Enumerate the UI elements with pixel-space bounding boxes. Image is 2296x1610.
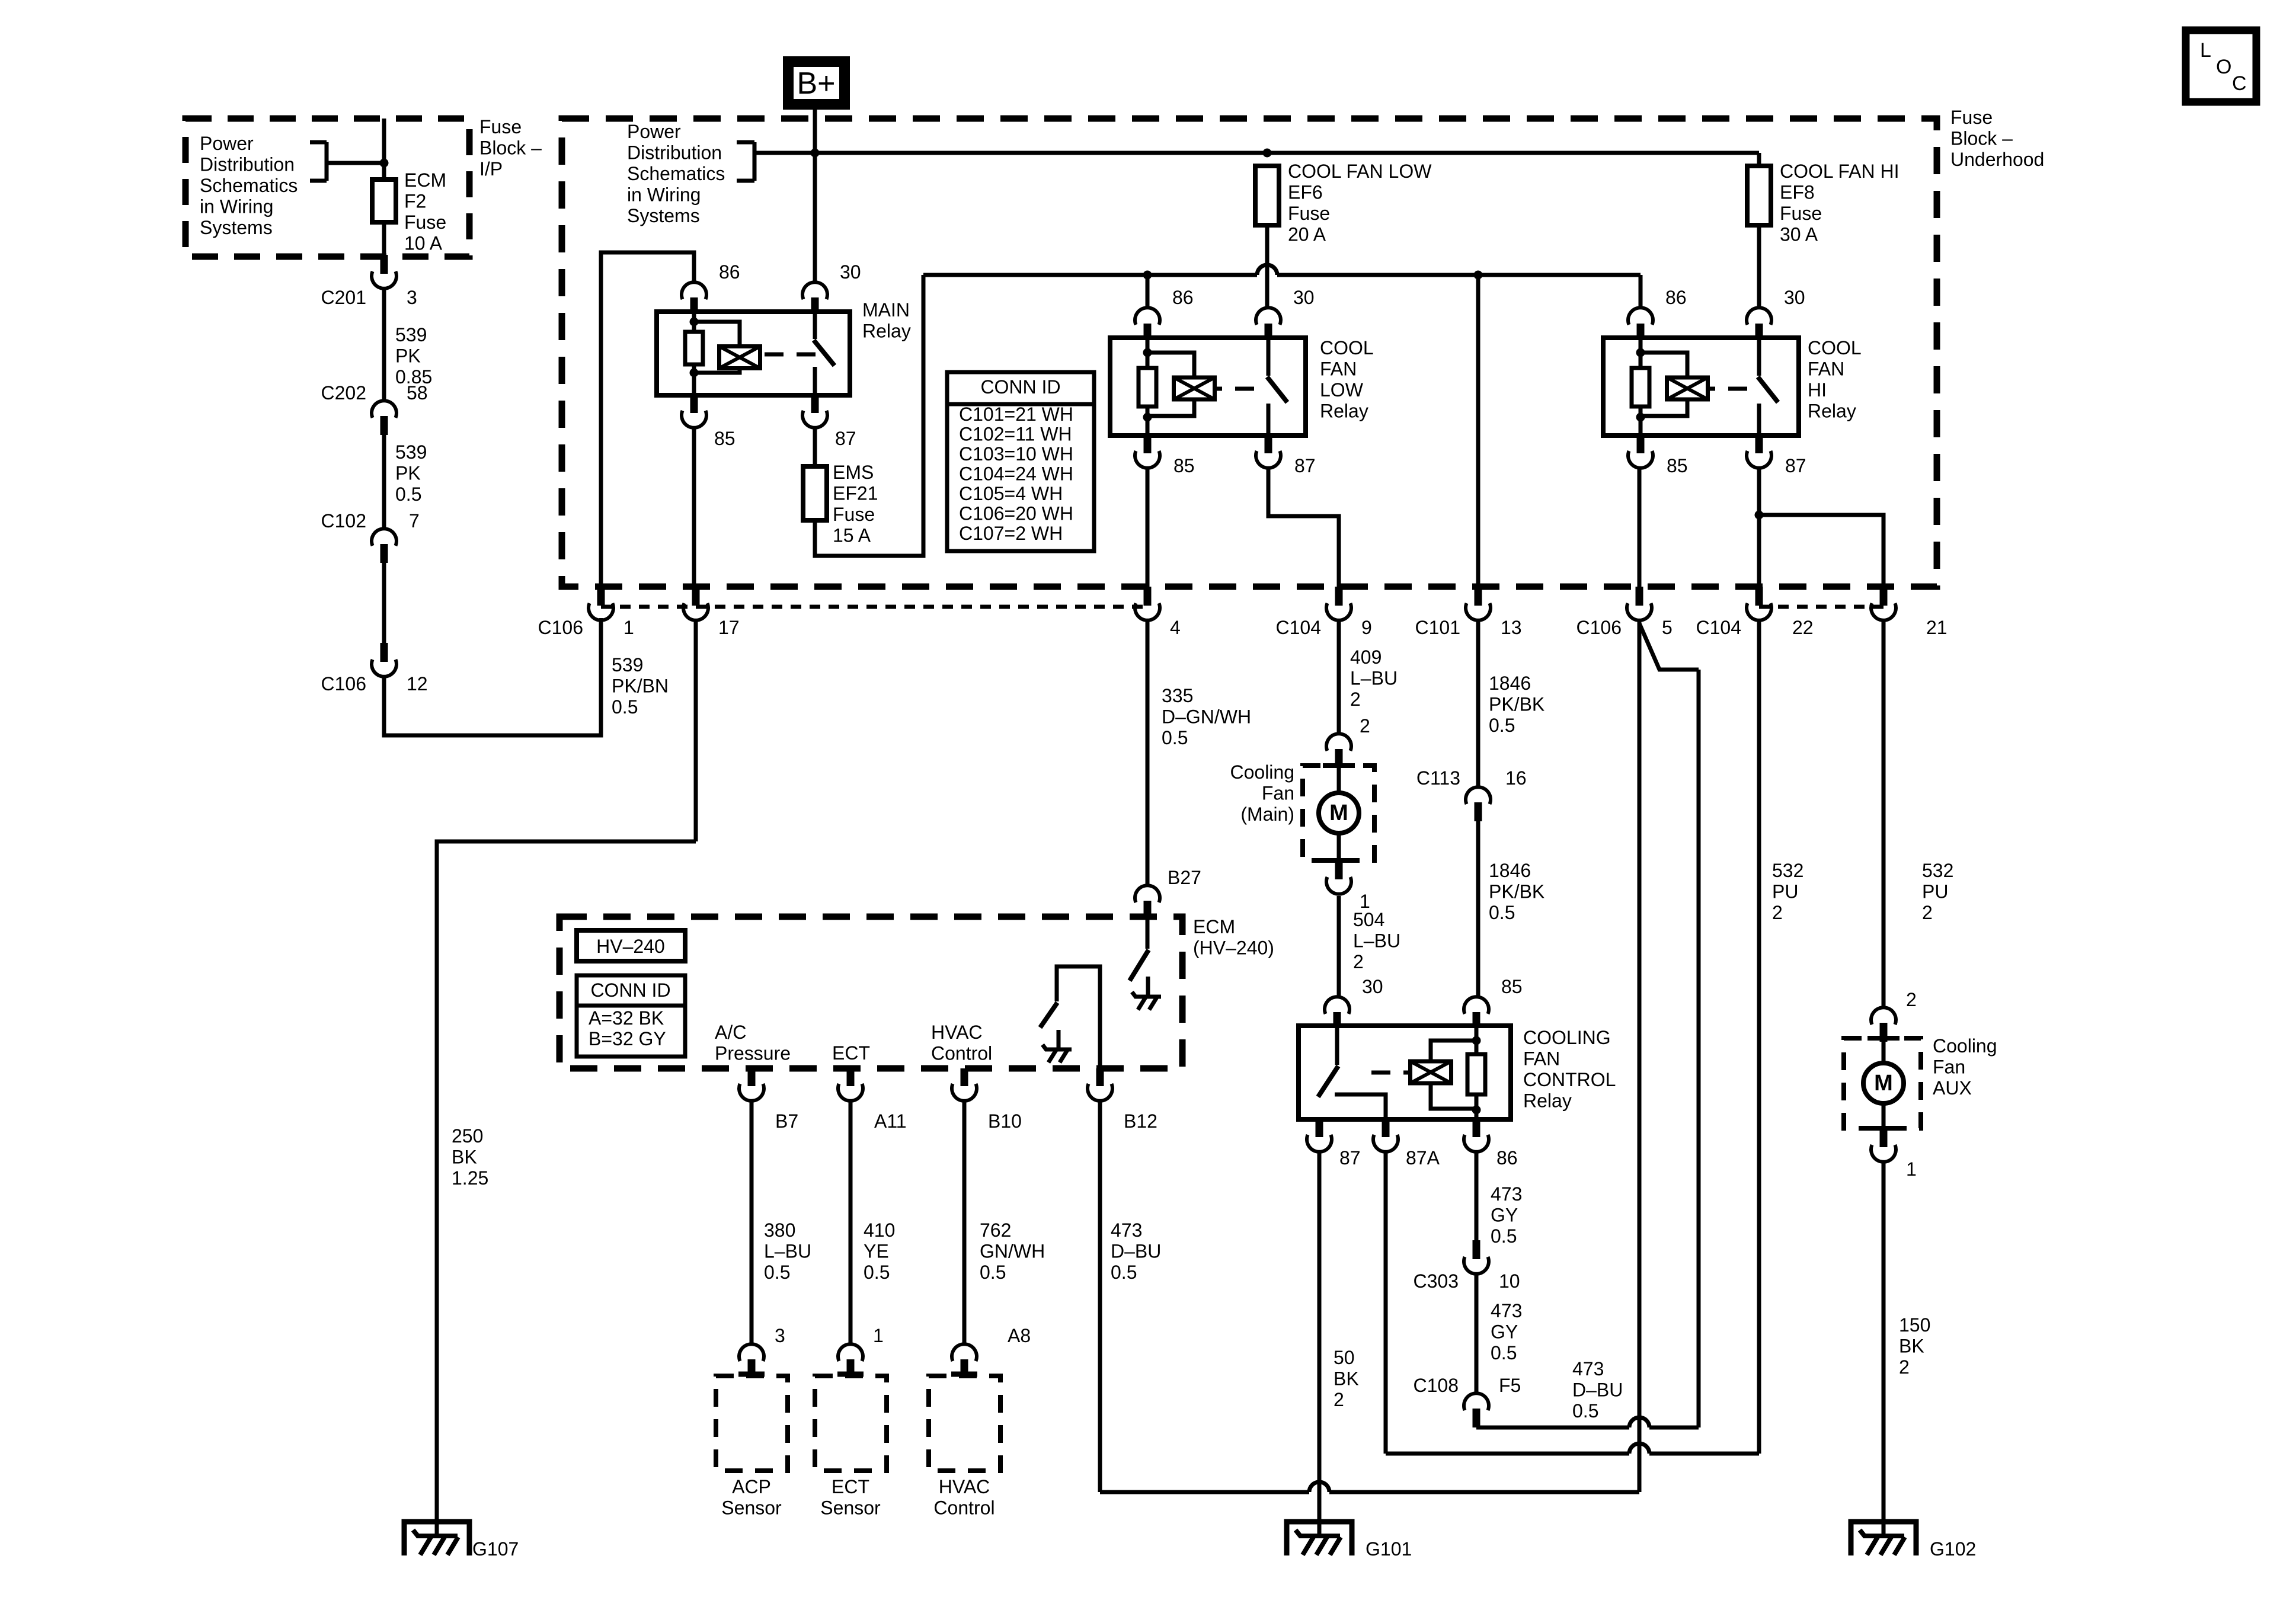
- svg-text:ACP: ACP: [732, 1476, 771, 1497]
- motor Cooling Fan AUX: [1844, 1035, 1997, 1128]
- sensor connector pin 1: [838, 1325, 884, 1378]
- svg-text:GY: GY: [1491, 1321, 1518, 1343]
- svg-text:Fuse: Fuse: [404, 212, 446, 233]
- svg-text:Fan: Fan: [1933, 1057, 1965, 1078]
- node: C101-13 junction: [1474, 271, 1483, 280]
- svg-text:380: 380: [764, 1219, 795, 1241]
- svg-text:in Wiring: in Wiring: [627, 184, 701, 206]
- svg-text:BK: BK: [1899, 1336, 1924, 1357]
- svg-text:FAN: FAN: [1320, 359, 1357, 380]
- svg-text:250: 250: [452, 1125, 483, 1147]
- svg-text:C: C: [2232, 72, 2247, 95]
- fuse EF8 (COOL FAN HI 30 A): [1747, 161, 1900, 245]
- svg-text:0.5: 0.5: [1491, 1225, 1517, 1247]
- svg-text:(Main): (Main): [1240, 804, 1294, 825]
- connector row dotted line C106: [601, 605, 1147, 609]
- connector: aux fan pin 1: [1871, 1128, 1917, 1180]
- svg-text:16: 16: [1505, 767, 1527, 789]
- svg-text:532: 532: [1922, 860, 1953, 881]
- svg-text:Systems: Systems: [200, 217, 273, 238]
- svg-text:FAN: FAN: [1523, 1048, 1560, 1070]
- ECM internal switch at B27: [1130, 920, 1161, 1010]
- svg-text:F5: F5: [1499, 1375, 1521, 1396]
- HV-240 label box: [577, 930, 685, 961]
- svg-text:CONN ID: CONN ID: [590, 980, 670, 1001]
- wire: C106-5 branch to 473 D-BU riser: [1639, 623, 1699, 1427]
- wire: C106-5 straight down to B12 run: [1638, 620, 1642, 1492]
- svg-text:PK/BK: PK/BK: [1489, 694, 1544, 715]
- svg-text:86: 86: [719, 261, 740, 283]
- svg-text:86: 86: [1496, 1147, 1518, 1169]
- svg-text:C101: C101: [1415, 617, 1461, 638]
- svg-text:Fuse: Fuse: [1288, 203, 1330, 224]
- svg-text:3: 3: [407, 287, 417, 308]
- wire: fuse block top to F2 fuse: [382, 119, 386, 180]
- svg-text:30: 30: [1293, 287, 1315, 308]
- wire 1846 PK/BK 0.5 upper: [1478, 620, 1544, 787]
- wire: HI 87 down to junction: [1755, 468, 1764, 520]
- svg-text:0.5: 0.5: [764, 1262, 790, 1283]
- ECT Sensor box: [815, 1374, 887, 1519]
- svg-text:C105=4 WH: C105=4 WH: [959, 483, 1063, 504]
- Power Distribution Schematics note (I/P): [200, 133, 384, 238]
- svg-text:COOL FAN LOW: COOL FAN LOW: [1288, 161, 1432, 182]
- svg-text:L–BU: L–BU: [1350, 668, 1398, 689]
- svg-text:409: 409: [1350, 646, 1382, 668]
- svg-text:C102: C102: [321, 510, 367, 532]
- wire: B12 run to C106-5 riser: [1100, 1482, 1639, 1492]
- svg-text:150: 150: [1899, 1314, 1930, 1336]
- wire 410 YE 0.5: [850, 1101, 895, 1344]
- relay MAIN - coil and resistor: [685, 312, 816, 395]
- svg-text:M: M: [1874, 1071, 1893, 1096]
- feed line to relay coils: [923, 265, 1641, 275]
- svg-text:PK: PK: [395, 345, 421, 367]
- wire: C106-12 down and right to C106-1 branch: [384, 618, 601, 735]
- svg-text:EMS: EMS: [833, 462, 874, 483]
- wire 532 PU 2 (C104-22 to 87A line): [1759, 620, 1803, 1454]
- svg-text:87: 87: [835, 428, 856, 449]
- svg-text:Systems: Systems: [627, 205, 700, 226]
- svg-text:D–BU: D–BU: [1572, 1379, 1623, 1401]
- wire: junction to C104-22: [1757, 515, 1761, 587]
- connector: relay pin 87: [1747, 436, 1806, 476]
- svg-text:1: 1: [623, 617, 634, 638]
- svg-text:GY: GY: [1491, 1205, 1518, 1226]
- svg-text:PK: PK: [395, 463, 421, 484]
- svg-text:30: 30: [1784, 287, 1805, 308]
- connector C106 pin 5: [1576, 587, 1673, 638]
- svg-text:C102=11 WH: C102=11 WH: [959, 424, 1072, 445]
- svg-text:0.5: 0.5: [980, 1262, 1006, 1283]
- svg-text:2: 2: [1772, 902, 1783, 923]
- svg-text:EF8: EF8: [1780, 182, 1815, 203]
- svg-text:HI: HI: [1808, 379, 1827, 401]
- svg-text:HVAC: HVAC: [939, 1476, 990, 1497]
- svg-text:0.5: 0.5: [612, 696, 638, 718]
- motor Cooling Fan (Main): [1230, 761, 1374, 860]
- wire 539 PK 0.5: [384, 435, 427, 529]
- svg-text:10: 10: [1499, 1270, 1520, 1292]
- wire 473 GY 0.5 upper: [1476, 1152, 1522, 1247]
- wire 380 L-BU 0.5: [752, 1101, 811, 1344]
- svg-text:PU: PU: [1922, 881, 1948, 902]
- svg-text:(HV–240): (HV–240): [1193, 937, 1274, 959]
- relay coil and resistor: [1139, 338, 1254, 436]
- svg-text:L–BU: L–BU: [764, 1241, 811, 1262]
- connector C113 pin 16: [1416, 767, 1527, 821]
- svg-text:C106: C106: [1576, 617, 1622, 638]
- svg-text:COOL: COOL: [1808, 337, 1862, 359]
- svg-text:B7: B7: [775, 1110, 798, 1132]
- wire: junction to connector 21: [1759, 515, 1884, 587]
- svg-text:473: 473: [1491, 1300, 1522, 1321]
- wire 335 D-GN/WH 0.5 to ECM B27: [1147, 620, 1251, 885]
- connector C106 pin 1: [538, 587, 634, 638]
- svg-text:Block –: Block –: [1950, 128, 2013, 149]
- svg-text:1: 1: [1906, 1158, 1917, 1180]
- svg-text:1: 1: [873, 1325, 884, 1346]
- svg-text:15 A: 15 A: [833, 525, 871, 546]
- svg-text:10 A: 10 A: [404, 233, 443, 254]
- wire: MAIN 85 to connector 17: [692, 428, 696, 587]
- svg-text:Fuse: Fuse: [1950, 107, 1993, 128]
- connector: aux fan pin 2: [1871, 989, 1917, 1042]
- svg-text:9: 9: [1361, 617, 1372, 638]
- svg-text:2: 2: [1360, 715, 1370, 737]
- svg-text:PK/BN: PK/BN: [612, 676, 669, 697]
- wire: LOW 85 to connector 4: [1146, 468, 1150, 587]
- svg-text:L–BU: L–BU: [1353, 930, 1400, 952]
- svg-text:539: 539: [395, 324, 427, 345]
- connector C101 pin 13: [1415, 587, 1522, 638]
- svg-text:87: 87: [1785, 455, 1806, 476]
- svg-text:Power: Power: [200, 133, 254, 154]
- svg-text:50: 50: [1334, 1347, 1355, 1368]
- connector: control relay pin 30: [1325, 976, 1383, 1026]
- svg-text:C104: C104: [1696, 617, 1742, 638]
- svg-text:473: 473: [1111, 1219, 1142, 1241]
- connector pin 21: [1871, 587, 1948, 638]
- connector ECM pin A11: [838, 1068, 907, 1132]
- connector ECM pin B7: [739, 1068, 798, 1132]
- svg-text:Fuse: Fuse: [1780, 203, 1822, 224]
- svg-text:0.5: 0.5: [864, 1262, 890, 1283]
- svg-text:Schematics: Schematics: [200, 175, 298, 196]
- svg-text:335: 335: [1162, 685, 1193, 706]
- Fuse Block - Underhood dashed box: [562, 107, 2044, 587]
- svg-text:85: 85: [1173, 455, 1195, 476]
- svg-text:CONN ID: CONN ID: [980, 376, 1060, 398]
- svg-text:MAIN: MAIN: [862, 299, 910, 321]
- svg-text:1846: 1846: [1489, 860, 1531, 881]
- connector: relay pin 30: [1256, 287, 1315, 338]
- svg-text:CONTROL: CONTROL: [1523, 1069, 1616, 1090]
- svg-text:473: 473: [1491, 1183, 1522, 1205]
- svg-text:20 A: 20 A: [1288, 224, 1326, 245]
- wire 1846 PK/BK 0.5 lower: [1478, 821, 1544, 997]
- connector: relay pin 86: [1628, 287, 1687, 338]
- wire 762 GN/WH 0.5: [964, 1101, 1045, 1344]
- connector C201 pin 3: [321, 255, 417, 308]
- wire: bus corner to EF8: [1757, 153, 1761, 166]
- wire: EF6 to COOL FAN LOW 30: [1265, 225, 1269, 309]
- svg-text:Fuse: Fuse: [833, 504, 875, 525]
- svg-text:C107=2 WH: C107=2 WH: [959, 523, 1063, 544]
- svg-text:Relay: Relay: [1808, 401, 1856, 422]
- svg-text:I/P: I/P: [479, 158, 503, 180]
- svg-text:58: 58: [407, 382, 428, 404]
- wire 539 PK 0.85: [384, 289, 432, 401]
- svg-text:Power: Power: [627, 121, 681, 142]
- wire: EF21 to feed line riser: [815, 275, 923, 556]
- CONN ID table: [947, 372, 1094, 551]
- B+ power feed box: [788, 62, 845, 104]
- svg-text:0.5: 0.5: [1489, 902, 1515, 923]
- relay switch: [1267, 338, 1287, 436]
- svg-text:Cooling: Cooling: [1933, 1035, 1997, 1057]
- svg-text:F2: F2: [404, 191, 426, 212]
- svg-text:Sensor: Sensor: [721, 1497, 782, 1519]
- svg-text:EF21: EF21: [833, 483, 878, 504]
- svg-text:C106: C106: [538, 617, 584, 638]
- svg-text:L: L: [2200, 39, 2211, 62]
- wire 539 PK/BN 0.5 label: [612, 654, 669, 718]
- node: F2 feed junction: [380, 159, 389, 168]
- svg-text:C106: C106: [321, 673, 367, 694]
- svg-text:C106=20 WH: C106=20 WH: [959, 503, 1073, 524]
- svg-text:30: 30: [1362, 976, 1383, 997]
- connector: relay pin 85: [1135, 436, 1195, 476]
- svg-text:FAN: FAN: [1808, 359, 1844, 380]
- svg-text:COOL: COOL: [1320, 337, 1374, 359]
- svg-text:Underhood: Underhood: [1950, 149, 2044, 170]
- svg-text:Control: Control: [931, 1043, 992, 1064]
- svg-text:1846: 1846: [1489, 673, 1531, 694]
- Fuse Block - I/P dashed box: [186, 116, 542, 257]
- svg-text:COOLING: COOLING: [1523, 1027, 1611, 1048]
- svg-text:Distribution: Distribution: [627, 142, 722, 164]
- wire: feed line to COOL FAN LOW 86: [1146, 275, 1150, 309]
- connector ECM pin B27: [1135, 867, 1201, 920]
- svg-text:Block –: Block –: [479, 137, 542, 159]
- node: B+ junction: [811, 149, 820, 158]
- svg-text:17: 17: [718, 617, 740, 638]
- svg-text:Cooling: Cooling: [1230, 761, 1294, 783]
- control relay coil and resistor: [1371, 1026, 1485, 1119]
- svg-text:Relay: Relay: [1320, 401, 1368, 422]
- wire: 87A to C104-22 line: [1386, 1152, 1759, 1454]
- Power Distribution Schematics note (Underhood): [627, 121, 754, 226]
- connector ECM pin B12: [1088, 1068, 1157, 1132]
- svg-text:YE: YE: [864, 1241, 889, 1262]
- connector C303 pin 10: [1414, 1240, 1520, 1292]
- connector: relay pin 86: [1135, 287, 1194, 338]
- svg-text:HV–240: HV–240: [596, 936, 665, 957]
- svg-text:C113: C113: [1416, 767, 1460, 789]
- svg-text:A=32 BK: A=32 BK: [589, 1007, 664, 1029]
- fuse EMS EF21 15 A: [803, 462, 878, 546]
- svg-text:5: 5: [1662, 617, 1673, 638]
- svg-text:C103=10 WH: C103=10 WH: [959, 443, 1073, 465]
- wire: EF8 to COOL FAN HI 30: [1757, 225, 1761, 309]
- svg-text:2: 2: [1922, 902, 1933, 923]
- svg-text:C201: C201: [321, 287, 367, 308]
- svg-text:COOL FAN HI: COOL FAN HI: [1780, 161, 1900, 182]
- LOC reference box: [2186, 30, 2256, 102]
- svg-text:410: 410: [864, 1219, 895, 1241]
- connector row dotted line C104: [1759, 605, 1884, 609]
- wire 409 L-BU 2: [1339, 620, 1398, 734]
- svg-text:30 A: 30 A: [1780, 224, 1818, 245]
- svg-text:21: 21: [1926, 617, 1948, 638]
- svg-text:C303: C303: [1414, 1270, 1459, 1292]
- wire 473 D-BU 0.5 from C108-F5 to riser: [1476, 1358, 1699, 1427]
- svg-text:C104: C104: [1276, 617, 1322, 638]
- connector pin 17: [683, 587, 740, 638]
- connector: control relay pin 87A: [1373, 1119, 1440, 1169]
- svg-text:BK: BK: [452, 1147, 477, 1168]
- svg-text:in Wiring: in Wiring: [200, 196, 273, 217]
- wire: MAIN 85 through 17: [694, 620, 698, 841]
- connector: control relay pin 85: [1464, 976, 1523, 1026]
- svg-text:C101=21 WH: C101=21 WH: [959, 404, 1073, 425]
- svg-text:A11: A11: [874, 1110, 907, 1132]
- svg-text:2: 2: [1350, 689, 1361, 710]
- connector: relay pin 30: [1747, 287, 1805, 338]
- svg-text:539: 539: [612, 654, 643, 676]
- svg-text:30: 30: [840, 261, 861, 283]
- wire 473 D-BU 0.5 from B12: [1100, 1101, 1161, 1492]
- svg-text:ECT: ECT: [832, 1042, 870, 1064]
- svg-text:Control: Control: [933, 1497, 994, 1519]
- svg-text:Fan: Fan: [1262, 783, 1294, 804]
- svg-text:Distribution: Distribution: [200, 154, 295, 175]
- control relay switch: [1318, 1026, 1386, 1119]
- relay COOL FAN HI Relay - box: [1603, 337, 1862, 436]
- connector: cooling fan main pin 2: [1326, 715, 1370, 768]
- svg-text:ECM: ECM: [1193, 916, 1235, 937]
- svg-text:LOW: LOW: [1320, 379, 1364, 401]
- connector: MAIN relay pin 87: [802, 395, 856, 449]
- wire: 17 to G107 run: [437, 841, 696, 1536]
- wire 50 BK 2 to G101: [1319, 1152, 1359, 1536]
- svg-text:ECM: ECM: [404, 169, 446, 191]
- connector pin 4: [1135, 587, 1181, 638]
- svg-text:0.5: 0.5: [1572, 1400, 1598, 1422]
- wire: feed line to COOL FAN HI 86: [1639, 275, 1643, 309]
- connector: MAIN relay pin 85: [682, 395, 736, 449]
- svg-text:87: 87: [1294, 455, 1316, 476]
- svg-text:2: 2: [1353, 951, 1364, 972]
- svg-text:Fuse: Fuse: [479, 116, 522, 137]
- relay coil and resistor: [1632, 338, 1747, 436]
- svg-text:1.25: 1.25: [452, 1167, 488, 1189]
- svg-text:BK: BK: [1334, 1368, 1359, 1390]
- connector: cooling fan main pin 1: [1326, 860, 1370, 912]
- svg-text:85: 85: [1501, 976, 1523, 997]
- wire 532 PU 2 (21 to aux fan): [1884, 620, 1953, 1007]
- svg-text:ECT: ECT: [832, 1476, 869, 1497]
- svg-text:532: 532: [1772, 860, 1803, 881]
- connector: control relay pin 86: [1464, 1119, 1518, 1169]
- wire: C101-13 junction down: [1476, 275, 1480, 587]
- ACP Sensor box: [716, 1374, 788, 1519]
- svg-text:504: 504: [1353, 909, 1384, 930]
- wire: C102 to C106-12: [382, 563, 386, 643]
- ECM internal switch at B12: [1040, 966, 1100, 1068]
- svg-text:PK/BK: PK/BK: [1489, 881, 1544, 902]
- svg-text:539: 539: [395, 441, 427, 463]
- svg-text:Pressure: Pressure: [715, 1043, 791, 1064]
- sensor connector pin A8: [952, 1325, 1031, 1378]
- svg-text:A8: A8: [1008, 1325, 1031, 1346]
- svg-text:762: 762: [980, 1219, 1011, 1241]
- svg-text:AUX: AUX: [1933, 1077, 1972, 1099]
- connector: control relay pin 87: [1307, 1119, 1361, 1169]
- ECM pin function labels: [715, 1022, 992, 1064]
- ground G107: [404, 1522, 519, 1560]
- svg-text:M: M: [1329, 801, 1348, 825]
- svg-text:PU: PU: [1772, 881, 1798, 902]
- connector: relay pin 87: [1256, 436, 1316, 476]
- connector: MAIN relay pin 86: [682, 261, 740, 312]
- svg-text:86: 86: [1172, 287, 1194, 308]
- svg-text:86: 86: [1665, 287, 1687, 308]
- connector ECM pin B10: [952, 1068, 1022, 1132]
- wire 150 BK 2 to G102: [1884, 1162, 1930, 1536]
- wire: LOW 87 to C104-9: [1268, 468, 1339, 587]
- node: EF6 junction: [1263, 149, 1272, 158]
- svg-text:12: 12: [407, 673, 428, 694]
- sensor connector pin 3: [739, 1325, 785, 1378]
- svg-text:3: 3: [775, 1325, 785, 1346]
- svg-text:C104=24 WH: C104=24 WH: [959, 463, 1073, 485]
- svg-text:0.5: 0.5: [1489, 715, 1515, 736]
- connector C102 pin 7: [321, 510, 420, 563]
- svg-text:2: 2: [1334, 1389, 1344, 1410]
- ground G101: [1287, 1522, 1412, 1560]
- connector: MAIN relay pin 30: [802, 261, 861, 312]
- relay MAIN - box: [657, 299, 911, 395]
- svg-text:B10: B10: [988, 1110, 1022, 1132]
- svg-text:C202: C202: [321, 382, 367, 404]
- ground G102: [1851, 1522, 1976, 1560]
- connector C202 pin 58: [321, 382, 428, 435]
- svg-text:C108: C108: [1414, 1375, 1459, 1396]
- svg-text:473: 473: [1572, 1358, 1604, 1379]
- ECM CONN ID table: [577, 975, 685, 1057]
- svg-text:O: O: [2216, 56, 2231, 78]
- wire: F2 fuse to C201: [382, 222, 386, 255]
- relay COOL FAN LOW Relay - box: [1110, 337, 1374, 436]
- svg-text:Relay: Relay: [862, 321, 911, 342]
- svg-text:7: 7: [409, 510, 420, 532]
- svg-text:0.5: 0.5: [1111, 1262, 1137, 1283]
- node: COOL FAN LOW 86 junction: [1143, 271, 1152, 280]
- wire: MAIN 86 up/left/down to C106-1: [601, 252, 694, 587]
- svg-text:B+: B+: [797, 66, 835, 101]
- svg-text:GN/WH: GN/WH: [980, 1241, 1045, 1262]
- svg-text:D–BU: D–BU: [1111, 1241, 1161, 1262]
- connector C108 pin F5: [1414, 1375, 1521, 1427]
- svg-text:Sensor: Sensor: [820, 1497, 881, 1519]
- svg-text:D–GN/WH: D–GN/WH: [1162, 706, 1251, 728]
- power bus wire: [754, 151, 1759, 155]
- ECM (HV-240) dashed box: [559, 916, 1274, 1068]
- wire 504 L-BU 2 to control relay 30: [1339, 896, 1400, 997]
- svg-text:HVAC: HVAC: [931, 1022, 983, 1043]
